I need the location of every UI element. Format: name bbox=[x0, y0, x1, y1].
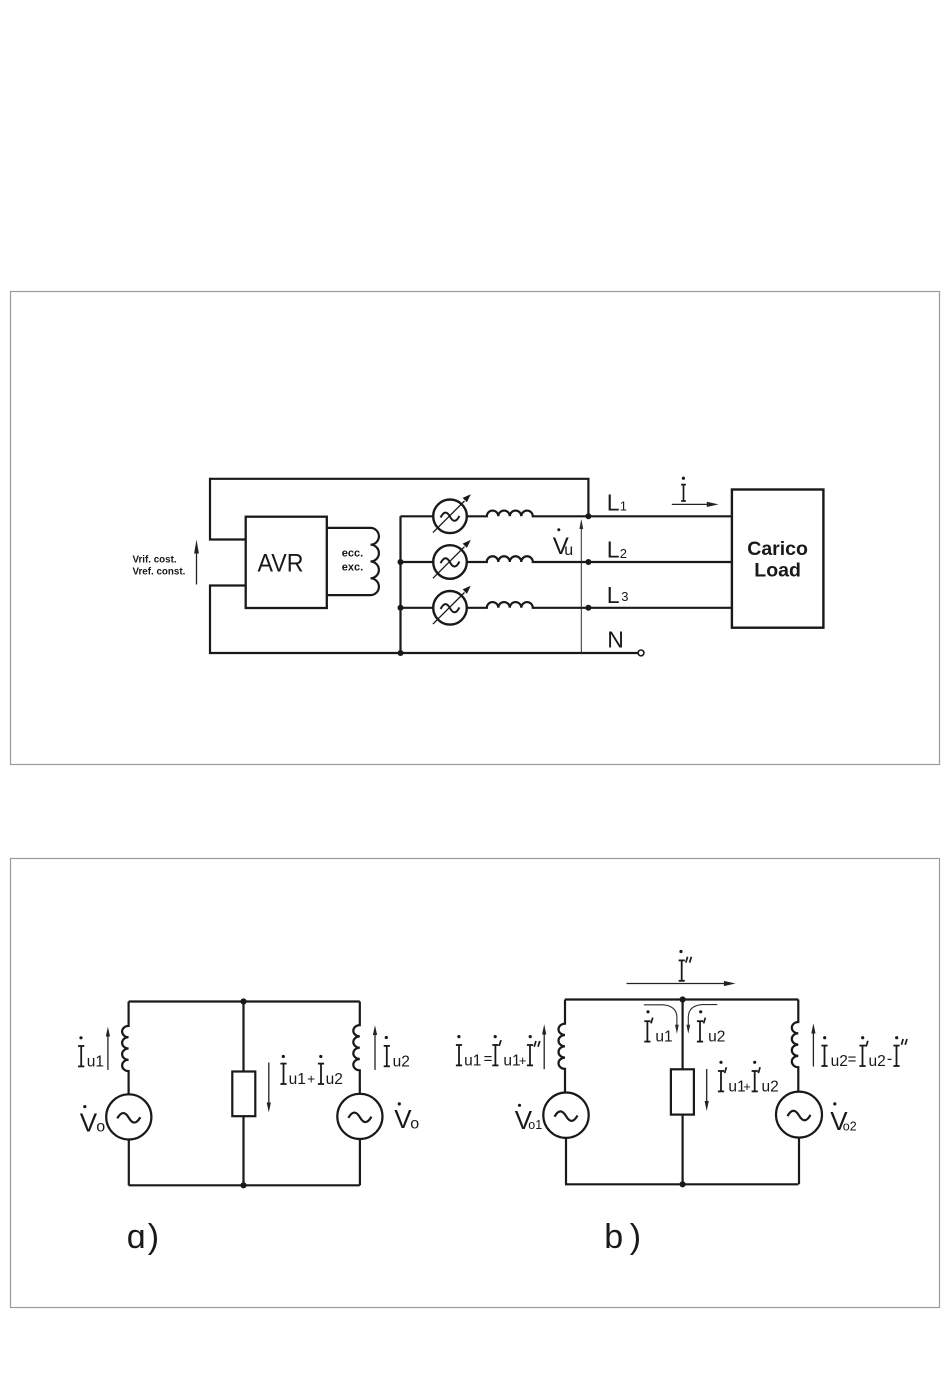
junction bus N bbox=[398, 650, 404, 656]
arrow down Iu1+Iu2 bbox=[267, 1063, 271, 1113]
junction L2 bbox=[585, 559, 591, 565]
generator G2 (variable AC source, phase L2) bbox=[401, 540, 471, 579]
panel frame bottom bbox=[11, 859, 940, 1308]
label Iu2 with up arrow bbox=[373, 1025, 410, 1070]
label Vo2 bbox=[830, 1102, 856, 1136]
svg-text:L: L bbox=[607, 490, 620, 516]
panel frame top bbox=[11, 292, 940, 765]
inductor left branch b (with wires) bbox=[558, 1000, 565, 1093]
label Iu1+Iu2 bbox=[280, 1055, 342, 1088]
svg-text:ecc.: ecc. bbox=[342, 548, 363, 560]
generator G3 (variable AC source, phase L3) bbox=[401, 586, 471, 625]
svg-text:o: o bbox=[410, 1116, 419, 1133]
svg-text:): ) bbox=[630, 1218, 641, 1256]
svg-text:u2: u2 bbox=[393, 1053, 410, 1070]
generator G1 (variable AC source, phase L1) bbox=[401, 494, 471, 533]
svg-text:u2: u2 bbox=[326, 1071, 343, 1088]
AC source Vo1 (circuit b) bbox=[543, 1093, 588, 1185]
svg-text:u2: u2 bbox=[869, 1053, 886, 1070]
svg-text:N: N bbox=[607, 627, 624, 653]
block Carico / Load bbox=[732, 490, 824, 628]
svg-text:AVR: AVR bbox=[258, 550, 304, 578]
curved flow arrow I'u1 (left into middle branch) bbox=[644, 1005, 679, 1034]
label I'u1 bbox=[644, 1010, 672, 1045]
svg-text:u1: u1 bbox=[655, 1029, 672, 1046]
svg-text:o2: o2 bbox=[843, 1119, 857, 1133]
label Iu1 with up arrow bbox=[78, 1027, 110, 1071]
svg-text:u1: u1 bbox=[464, 1052, 481, 1069]
svg-text:u1: u1 bbox=[87, 1053, 104, 1070]
junction L3 bbox=[585, 605, 591, 611]
svg-text:V: V bbox=[80, 1107, 98, 1137]
excitation winding (ecc. exc.) bbox=[327, 528, 379, 595]
label Vu bbox=[553, 528, 573, 560]
AC source Vo right (circuit a) bbox=[337, 1094, 382, 1186]
wire: bottom wire circuit b bbox=[565, 1183, 798, 1185]
junction L1 bbox=[585, 513, 591, 519]
svg-text:+: + bbox=[307, 1072, 315, 1087]
svg-text:1: 1 bbox=[620, 499, 627, 514]
svg-text:u: u bbox=[564, 542, 573, 559]
label Iu1=I'u1+I'' with up arrow bbox=[456, 1024, 546, 1069]
svg-text:+: + bbox=[743, 1079, 751, 1094]
svg-text:u2: u2 bbox=[831, 1053, 848, 1070]
AC source Vo2 (circuit b) bbox=[776, 1092, 822, 1185]
junction bus row2 bbox=[398, 559, 404, 565]
arrow I'' over top wire bbox=[627, 981, 736, 986]
label L2 bbox=[607, 537, 627, 563]
svg-text:u1: u1 bbox=[289, 1071, 306, 1088]
inductor L row3 bbox=[467, 602, 732, 608]
wire: top feedback wire from left vertical to L1 junction bbox=[210, 479, 588, 517]
label L3 bbox=[607, 582, 629, 608]
svg-text:): ) bbox=[148, 1218, 159, 1256]
label Vrif. cost. / Vref. const. bbox=[133, 555, 186, 578]
resistor middle branch a (with wires) bbox=[232, 1002, 255, 1186]
junction bottom middle a bbox=[240, 1182, 246, 1188]
svg-text:L: L bbox=[607, 582, 620, 608]
wire: top wire circuit b bbox=[565, 998, 798, 1000]
inductor L row1 bbox=[467, 511, 732, 517]
label I'' bbox=[679, 950, 692, 981]
junction bottom middle b bbox=[680, 1181, 686, 1187]
arrow: Vrif reference input arrow bbox=[194, 540, 199, 585]
arrow down I'u1+I'u2 bbox=[705, 1069, 709, 1111]
junction top middle b bbox=[680, 996, 686, 1002]
wire: bottom wire circuit a bbox=[129, 1184, 360, 1186]
label I'u1+I'u2 bbox=[718, 1061, 779, 1096]
label I'u2 bbox=[697, 1010, 725, 1045]
wire: AVR bottom input stub + left vertical lower + bottom N wire bbox=[210, 586, 638, 654]
svg-text:Vrif. cost.: Vrif. cost. bbox=[133, 555, 177, 566]
block AVR (automatic voltage regulator) bbox=[246, 517, 327, 608]
terminal N open circle bbox=[638, 650, 644, 656]
resistor middle branch b (with wires) bbox=[671, 1000, 694, 1185]
junction top middle a bbox=[240, 998, 246, 1004]
svg-text:b: b bbox=[604, 1218, 623, 1256]
label Vo right bbox=[394, 1102, 419, 1134]
svg-text:-: - bbox=[887, 1051, 892, 1068]
svg-text:exc.: exc. bbox=[342, 562, 363, 574]
curved flow arrow I'u2 (right into middle branch) bbox=[686, 1005, 717, 1034]
svg-text:=: = bbox=[484, 1050, 493, 1067]
label Iu2=I'u2-I'' with up arrow bbox=[811, 1023, 907, 1070]
svg-text:u2: u2 bbox=[762, 1078, 779, 1095]
AC source Vo left (circuit a) bbox=[106, 1094, 151, 1185]
svg-text:o: o bbox=[96, 1119, 105, 1136]
label b) bbox=[604, 1218, 641, 1256]
svg-text:3: 3 bbox=[621, 589, 628, 604]
label a) bbox=[127, 1218, 159, 1256]
svg-text:=: = bbox=[848, 1051, 857, 1068]
inductor L row2 bbox=[467, 556, 732, 562]
svg-text:ɑ: ɑ bbox=[127, 1218, 146, 1256]
svg-text:u2: u2 bbox=[708, 1029, 725, 1046]
wire: left vertical upper + AVR top input stub bbox=[210, 478, 247, 540]
junction bus row3 bbox=[398, 605, 404, 611]
wire: top wire circuit a bbox=[129, 1000, 360, 1002]
label L1 bbox=[607, 490, 627, 516]
svg-text:2: 2 bbox=[620, 546, 627, 561]
label current I with arrow bbox=[672, 477, 719, 507]
measurement line Vu with up arrow bbox=[579, 519, 583, 653]
bus: generator output vertical bus bbox=[399, 516, 401, 653]
svg-text:+: + bbox=[519, 1053, 527, 1068]
svg-text:o1: o1 bbox=[528, 1118, 542, 1132]
svg-text:L: L bbox=[607, 537, 620, 563]
label N bbox=[607, 627, 624, 653]
label Vo1 bbox=[515, 1104, 542, 1135]
svg-text:Carico: Carico bbox=[747, 538, 808, 560]
svg-text:Load: Load bbox=[754, 560, 801, 582]
label Vo left bbox=[80, 1105, 106, 1137]
inductor left branch a (with wires) bbox=[122, 1002, 129, 1095]
inductor right branch a (with wires) bbox=[353, 1002, 360, 1094]
inductor right branch b (with wires) bbox=[792, 1000, 799, 1092]
svg-text:Vref. const.: Vref. const. bbox=[133, 567, 186, 578]
